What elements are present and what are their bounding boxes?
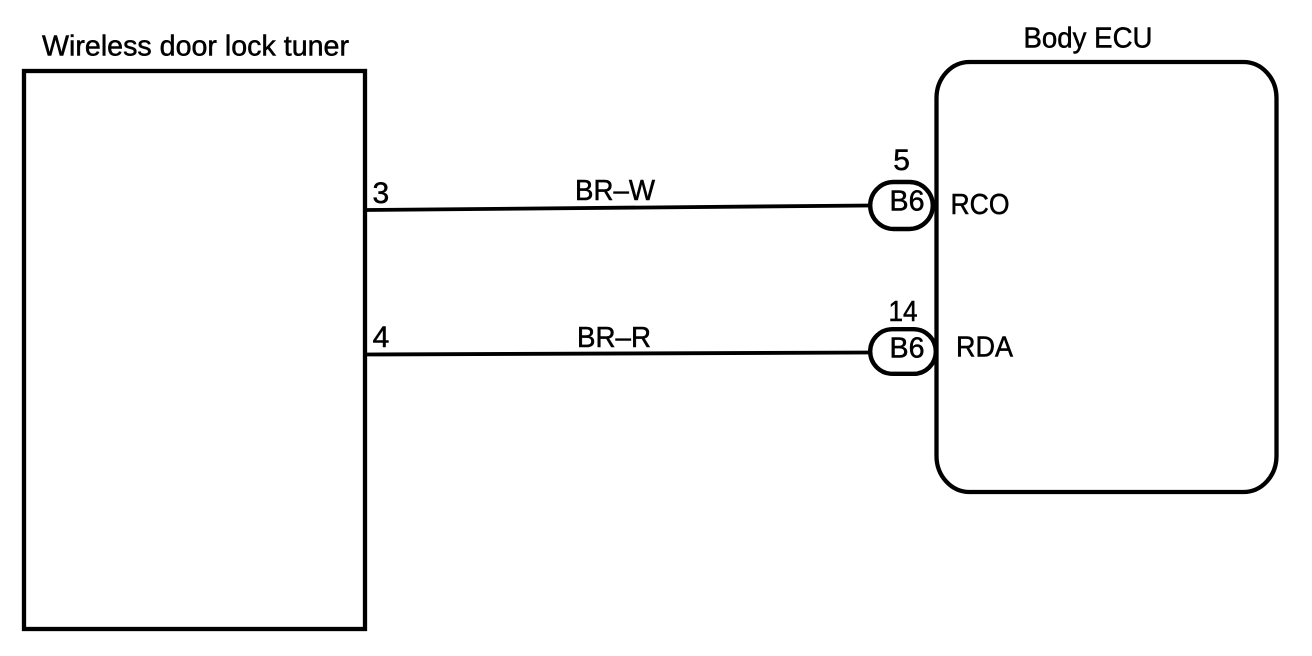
svg-text:14: 14 (889, 296, 918, 328)
svg-text:RDA: RDA (956, 332, 1014, 364)
svg-text:RCO: RCO (951, 189, 1010, 221)
svg-text:BR–R: BR–R (577, 322, 651, 354)
svg-text:Wireless door lock tuner: Wireless door lock tuner (42, 31, 349, 63)
svg-text:5: 5 (893, 144, 910, 177)
svg-text:B6: B6 (890, 333, 925, 365)
svg-text:B6: B6 (890, 186, 925, 218)
svg-text:BR–W: BR–W (575, 175, 656, 207)
svg-text:3: 3 (373, 177, 390, 210)
svg-text:4: 4 (373, 321, 390, 354)
svg-text:Body ECU: Body ECU (1024, 23, 1153, 55)
